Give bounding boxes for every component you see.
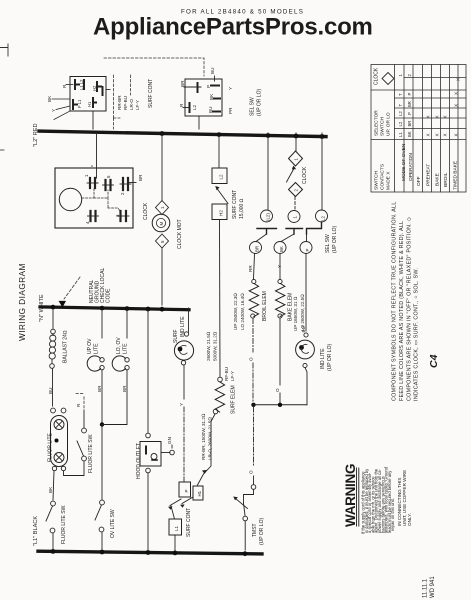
table cell lines horizontal bbox=[395, 98, 467, 129]
tube center dot bbox=[55, 439, 59, 443]
svg-text:L2: L2 bbox=[398, 121, 403, 126]
wire P plug down bbox=[305, 254, 307, 332]
svg-text:L2: L2 bbox=[192, 104, 197, 110]
wire H1 to L2 bus bbox=[92, 111, 94, 129]
oven ind lite lamp bbox=[296, 340, 315, 359]
svg-text:BU: BU bbox=[208, 107, 213, 113]
ballast terminal top bbox=[51, 329, 56, 334]
box terminal L2 bbox=[212, 168, 227, 184]
svg-text:SURF CONT: SURF CONT bbox=[148, 79, 154, 108]
terminal circle top bbox=[184, 332, 188, 336]
double arrows bbox=[170, 499, 181, 506]
dash wire broil to sub-bus bbox=[252, 319, 254, 403]
svg-text:X: X bbox=[454, 104, 459, 107]
svg-text:X: X bbox=[435, 115, 440, 118]
plug circle 1 bbox=[288, 211, 300, 223]
svg-text:BR: BR bbox=[122, 385, 127, 392]
dashed harness top run bbox=[104, 58, 204, 76]
lamp top terminal bbox=[304, 333, 308, 337]
svg-text:LITE: LITE bbox=[94, 343, 100, 354]
fluor sw2 arm bbox=[77, 441, 84, 456]
lower surf cont box H1 bbox=[193, 486, 203, 500]
surface unit switch box (left) bbox=[70, 77, 106, 112]
svg-text:UP 2500W, 22.3Ω: UP 2500W, 22.3Ω bbox=[233, 293, 238, 330]
ov lite sw arm bbox=[95, 505, 102, 520]
table selector band divider bbox=[371, 139, 466, 141]
terminal L1 top bbox=[75, 80, 79, 89]
svg-text:WIRING DIAGRAM: WIRING DIAGRAM bbox=[18, 263, 27, 341]
svg-text:X: X bbox=[443, 115, 448, 118]
outlet terminal bottom bbox=[146, 468, 151, 473]
svg-text:X: X bbox=[426, 133, 431, 136]
svg-text:SURF ELEM: SURF ELEM bbox=[231, 385, 237, 414]
coil BROIL ELEM bbox=[249, 284, 258, 317]
svg-text:O: O bbox=[249, 470, 254, 474]
clock terminal 1 bbox=[90, 178, 95, 188]
svg-text:FEED LINE COLORS ARE AS NOTED: FEED LINE COLORS ARE AS NOTED (BLACK, WH… bbox=[399, 221, 405, 401]
svg-text:X: X bbox=[426, 115, 431, 118]
svg-text:IND LITE: IND LITE bbox=[320, 348, 326, 369]
dashed harness box bbox=[114, 75, 131, 118]
bus N WHITE bbox=[40, 307, 189, 310]
svg-text:MADE X: MADE X bbox=[386, 171, 392, 190]
svg-text:2600W, 21.5Ω: 2600W, 21.5Ω bbox=[206, 331, 211, 361]
tube terminal bottom-right bbox=[61, 466, 65, 470]
wire bar to BK plug bbox=[281, 234, 294, 242]
fluorescent tube capsule bbox=[51, 416, 68, 467]
ground arrow head on N bus bbox=[59, 301, 67, 308]
svg-text:TIMED BAKE: TIMED BAKE bbox=[453, 161, 459, 190]
terminal F bottom bbox=[73, 100, 77, 109]
junction on L2 at surf cont bbox=[217, 132, 222, 137]
clock diamond 2 bbox=[289, 183, 303, 197]
junction on L2 at clock motor bbox=[160, 131, 165, 136]
dash wire to lower surf cont P bbox=[183, 407, 185, 482]
svg-text:BK: BK bbox=[209, 93, 214, 100]
terminal P top-right bbox=[211, 85, 219, 87]
clock face circle bbox=[59, 188, 81, 210]
plug circle P bbox=[300, 242, 312, 254]
svg-text:LO 2400W, 16.4Ω: LO 2400W, 16.4Ω bbox=[240, 293, 245, 330]
svg-text:SURF CONT: SURF CONT bbox=[232, 190, 238, 219]
wire elem elbow to lower surf cont bbox=[198, 414, 216, 485]
wire L2 to surf cont bbox=[218, 133, 220, 168]
svg-text:COMPONENTS ARE SHOWN IN "OFF": COMPONENTS ARE SHOWN IN "OFF" OR "RELAXE… bbox=[407, 217, 413, 401]
wire lamp to junction bbox=[102, 370, 127, 425]
surf ind lite lamp bbox=[174, 341, 193, 360]
svg-text:BR: BR bbox=[255, 246, 260, 252]
wire sw2 up with dashes bbox=[83, 410, 85, 428]
svg-text:P: P bbox=[305, 249, 310, 252]
svg-text:repair on this unit.: repair on this unit. bbox=[390, 498, 395, 531]
table clock band divider bbox=[371, 89, 466, 91]
svg-text:SWITCH: SWITCH bbox=[380, 117, 386, 136]
terminal stub right edge bbox=[102, 87, 104, 95]
ballast coil bbox=[50, 335, 56, 341]
registration tick left edge mid bbox=[0, 149, 4, 151]
clock internal dashed links bbox=[82, 188, 120, 211]
wire surf cont down bbox=[219, 220, 222, 378]
svg-text:H1: H1 bbox=[197, 490, 202, 496]
svg-text:RF-BU: RF-BU bbox=[224, 367, 229, 381]
svg-text:H2: H2 bbox=[92, 85, 97, 91]
svg-text:AppliancePartsPros.com: AppliancePartsPros.com bbox=[93, 14, 373, 41]
svg-text:LITE: LITE bbox=[123, 343, 129, 354]
terminal BU bottom-mid bbox=[213, 111, 220, 113]
svg-text:SEL SW: SEL SW bbox=[325, 234, 331, 253]
svg-text:"N" WHITE: "N" WHITE bbox=[39, 294, 45, 322]
svg-text:CLOCK: CLOCK bbox=[302, 166, 308, 184]
plug circle sel sw L2 bbox=[316, 210, 328, 222]
svg-text:SURF: SURF bbox=[173, 329, 179, 343]
clock terminal 3 bbox=[121, 211, 127, 221]
terminal circle above rf elem bbox=[218, 377, 223, 382]
wire N to lo ov lite bbox=[126, 309, 128, 338]
bus L1 BLACK bbox=[38, 551, 262, 554]
fluor lite sw top contact bbox=[51, 501, 56, 506]
svg-text:RR-BR, 1500W, 31.2Ω: RR-BR, 1500W, 31.2Ω bbox=[201, 413, 206, 460]
svg-text:X: X bbox=[454, 92, 459, 95]
table row titles bbox=[401, 143, 459, 190]
wire BK plug to bake elem bbox=[279, 254, 281, 280]
svg-text:H1: H1 bbox=[87, 101, 92, 107]
outlet slot bbox=[145, 447, 147, 454]
svg-text:SEL SW: SEL SW bbox=[250, 97, 256, 116]
wire bake to sub-bus bbox=[279, 319, 281, 404]
svg-text:X: X bbox=[456, 78, 461, 81]
tick at box top bbox=[214, 76, 216, 81]
svg-text:M: M bbox=[159, 222, 164, 226]
terminal L2 top bbox=[83, 80, 85, 89]
harness wire color legend bbox=[117, 95, 140, 110]
svg-text:CONTACTS: CONTACTS bbox=[380, 164, 386, 190]
wire ballast down bbox=[52, 369, 54, 407]
lead R into box bbox=[66, 84, 73, 86]
svg-text:BR: BR bbox=[97, 385, 102, 392]
terminal H2 top bbox=[97, 82, 101, 91]
svg-text:"L1" BLACK: "L1" BLACK bbox=[33, 516, 39, 546]
wire L2 to plug L2 (x=268) bbox=[267, 133, 269, 210]
ov lite sw bottom contact bbox=[99, 527, 104, 532]
svg-text:ONLY.: ONLY. bbox=[407, 513, 412, 526]
switch arm with arrow bbox=[217, 189, 228, 204]
WARNING underline bbox=[357, 468, 359, 526]
svg-text:L2: L2 bbox=[219, 174, 224, 180]
svg-text:BU: BU bbox=[210, 68, 215, 74]
svg-text:RR: RR bbox=[248, 265, 253, 272]
dashed drop to bus bbox=[114, 118, 121, 129]
receptacle bar 3 elbow bbox=[307, 222, 322, 234]
svg-text:T: T bbox=[398, 104, 403, 107]
tmst arm with arrow bbox=[236, 499, 248, 509]
svg-text:BR: BR bbox=[180, 80, 185, 87]
table clock split bbox=[404, 77, 466, 79]
dash wire sub bus to tmst bbox=[253, 407, 255, 466]
lo ov lite lamp bbox=[112, 356, 125, 371]
svg-text:X: X bbox=[443, 133, 448, 136]
svg-text:CLOCK MOT: CLOCK MOT bbox=[177, 219, 183, 249]
wire lamp to sub bus bbox=[305, 368, 307, 405]
junction on L2 at clock switch bbox=[294, 134, 299, 139]
wire L2 to clock sw (x=296) bbox=[295, 133, 297, 151]
up ov lite lamp bbox=[87, 356, 100, 371]
svg-text:PR: PR bbox=[228, 107, 233, 114]
svg-text:SURF CONT: SURF CONT bbox=[186, 508, 192, 537]
svg-text:LR-O: LR-O bbox=[129, 99, 134, 110]
svg-text:P: P bbox=[206, 85, 211, 88]
junction on N at clock motor bbox=[160, 307, 165, 312]
terminal H1 bottom bbox=[93, 98, 96, 107]
outlet terminal top bbox=[146, 433, 151, 438]
terminal BR top-left bbox=[197, 83, 199, 92]
svg-text:BALLAST 24Ω: BALLAST 24Ω bbox=[63, 330, 69, 363]
svg-text:BK: BK bbox=[47, 95, 52, 102]
junction on N at up ov lite bbox=[100, 306, 105, 311]
table header column divider bbox=[394, 65, 396, 193]
svg-text:BROIL ELEM: BROIL ELEM bbox=[262, 291, 268, 321]
fluor lite sw bottom contact bbox=[50, 528, 55, 533]
svg-text:L1: L1 bbox=[174, 525, 179, 531]
svg-text:H2: H2 bbox=[219, 210, 224, 216]
junction on L1 at tmst bbox=[243, 551, 248, 556]
coil BAKE ELEM bbox=[276, 284, 285, 317]
tmst upper terminal bbox=[251, 485, 256, 490]
clock terminal 4 bbox=[91, 211, 96, 221]
svg-text:Y: Y bbox=[51, 109, 56, 112]
svg-text:RR-BR: RR-BR bbox=[117, 95, 122, 110]
ground note pointer dash bbox=[64, 277, 80, 299]
junction on N at hood outlet bbox=[146, 307, 151, 312]
clock box bbox=[55, 168, 133, 228]
arrowhead on elbow bbox=[202, 470, 207, 474]
junction on L2 at sel sw bbox=[320, 134, 325, 139]
svg-text:WARNING: WARNING bbox=[343, 464, 358, 527]
box terminal L1 bbox=[169, 519, 182, 535]
svg-text:(UP OR LO): (UP OR LO) bbox=[327, 344, 333, 371]
svg-text:X: X bbox=[435, 133, 440, 136]
svg-text:IND LITE: IND LITE bbox=[180, 316, 186, 337]
svg-text:BROIL: BROIL bbox=[443, 172, 449, 187]
svg-text:P: P bbox=[184, 489, 189, 492]
lead BK bbox=[52, 98, 70, 100]
bus L2 RED bbox=[39, 131, 326, 137]
switch arm to L1 box bbox=[171, 506, 175, 519]
junction on N at ballast bbox=[51, 305, 56, 310]
coil RF SURF ELEM bbox=[215, 382, 224, 412]
svg-text:MODE OF OVEN: MODE OF OVEN bbox=[401, 143, 407, 181]
svg-text:UP OV: UP OV bbox=[87, 338, 93, 354]
svg-text:(L2): (L2) bbox=[266, 213, 271, 221]
registration tick left edge top bbox=[0, 44, 8, 56]
svg-text:Y: Y bbox=[277, 265, 282, 268]
table X marks bbox=[426, 78, 461, 137]
fluor lite sw arm bbox=[46, 506, 53, 521]
clock terminal 5 bbox=[106, 180, 111, 190]
junction on L1 at hood outlet bbox=[146, 550, 151, 555]
N bus end drop bbox=[188, 308, 190, 332]
svg-text:BK: BK bbox=[279, 246, 284, 252]
svg-text:L2: L2 bbox=[321, 216, 326, 221]
warning copper note bbox=[397, 470, 412, 526]
table outer border bbox=[371, 65, 466, 193]
lead from 2 out right side bbox=[128, 182, 136, 184]
sub bus node bake bbox=[278, 403, 282, 407]
tube terminal top-right bbox=[61, 408, 66, 413]
gn lead bbox=[161, 452, 170, 454]
svg-text:P: P bbox=[407, 93, 412, 96]
svg-text:O: O bbox=[275, 388, 280, 392]
box terminal H2 bbox=[212, 204, 227, 220]
svg-text:FLUOR LITE SW.: FLUOR LITE SW. bbox=[88, 434, 94, 473]
dash wire to plug 1 bbox=[294, 197, 296, 210]
svg-text:Y: Y bbox=[228, 87, 233, 90]
svg-text:BU: BU bbox=[301, 326, 306, 332]
tmst lower diagonal bbox=[244, 503, 246, 516]
wire N to hood outlet bbox=[147, 309, 149, 433]
terminal circle bbox=[251, 314, 255, 318]
svg-text:CODE: CODE bbox=[106, 288, 112, 303]
receptacle bar 2 bbox=[286, 229, 303, 235]
svg-text:RF-BU: RF-BU bbox=[123, 96, 128, 110]
svg-text:L1 L2: L1 L2 bbox=[79, 79, 84, 90]
tube terminal bottom-left bbox=[52, 466, 56, 470]
table row lines vertical bbox=[404, 65, 458, 193]
wire outlet to L1 bbox=[147, 473, 149, 550]
ballast terminal bottom bbox=[50, 364, 55, 369]
svg-text:LF-Y: LF-Y bbox=[230, 371, 235, 381]
terminal circle below rf elem bbox=[213, 409, 218, 414]
svg-text:INDICATES CLOCK, ▭ SURF. CONT.: INDICATES CLOCK, ▭ SURF. CONT., ○ SOL. S… bbox=[414, 268, 420, 401]
svg-text:OV LITE SW: OV LITE SW bbox=[110, 509, 116, 538]
clock motor circle bbox=[152, 214, 170, 232]
wire clock motor to N bbox=[161, 248, 163, 305]
junction on L1 at surf cont bbox=[173, 551, 178, 556]
diamond terminal 1 bbox=[156, 201, 169, 215]
svg-text:CLOCK: CLOCK bbox=[374, 67, 380, 85]
fluor sw2 bottom contact bbox=[82, 456, 87, 461]
outlet hole bbox=[151, 454, 157, 460]
wire box to L2 bus bbox=[198, 116, 200, 129]
svg-text:5000W, 31.2Ω: 5000W, 31.2Ω bbox=[213, 331, 218, 361]
second tube circuit wire bbox=[64, 461, 85, 476]
hood outlet box bbox=[140, 442, 161, 467]
svg-text:BK: BK bbox=[48, 486, 53, 493]
clock diamond symbol bbox=[382, 73, 394, 85]
tube terminal top-left bbox=[51, 408, 56, 413]
tmst lower terminal bbox=[243, 516, 248, 521]
wire junction to switch bbox=[101, 425, 103, 501]
svg-text:Y: Y bbox=[179, 403, 184, 406]
svg-text:TMST: TMST bbox=[252, 523, 258, 537]
terminal circle bbox=[252, 279, 256, 283]
wire tube to switch bbox=[53, 471, 54, 500]
terminal L2 bottom-left bbox=[189, 103, 191, 112]
wire tmst to L1 bbox=[244, 521, 246, 550]
wire switch to L1 bbox=[101, 532, 103, 550]
svg-text:BR: BR bbox=[138, 174, 143, 181]
svg-text:OPERATION: OPERATION bbox=[408, 153, 414, 181]
svg-text:X: X bbox=[454, 133, 459, 136]
svg-text:OFF: OFF bbox=[416, 176, 422, 186]
svg-text:"L2" RED: "L2" RED bbox=[33, 123, 39, 147]
svg-text:BK: BK bbox=[407, 131, 412, 137]
svg-text:11.11.1: 11.11.1 bbox=[423, 578, 429, 598]
svg-text:UP 1650W, 31 Ω: UP 1650W, 31 Ω bbox=[293, 296, 298, 331]
svg-text:15,000 Ω: 15,000 Ω bbox=[239, 198, 245, 219]
clock switch arm bbox=[287, 168, 295, 183]
svg-text:FLUOR LITE SW.: FLUOR LITE SW. bbox=[61, 505, 67, 544]
junction on L1 at ov lite sw bbox=[100, 550, 105, 555]
svg-text:LO 2600W, 22.5Ω: LO 2600W, 22.5Ω bbox=[300, 294, 305, 331]
svg-text:LF-Y: LF-Y bbox=[135, 100, 140, 110]
ov lite sw top contact bbox=[100, 500, 105, 505]
svg-text:L2: L2 bbox=[398, 111, 403, 116]
tmst body bbox=[244, 490, 254, 504]
svg-text:O: O bbox=[249, 357, 254, 361]
svg-text:*: * bbox=[91, 165, 97, 167]
junction ov lites bbox=[100, 422, 104, 426]
svg-text:WD 941: WD 941 bbox=[430, 576, 436, 598]
wire down bbox=[183, 365, 185, 399]
svg-text:FLUOR LITE: FLUOR LITE bbox=[48, 432, 54, 462]
table terminal row labels bbox=[398, 74, 412, 138]
svg-text:SWITCH: SWITCH bbox=[374, 171, 380, 190]
plug circle BK bbox=[274, 242, 286, 254]
svg-text:T: T bbox=[398, 93, 403, 96]
svg-text:SELECTOR: SELECTOR bbox=[374, 110, 380, 136]
tube cathode bottom bbox=[54, 453, 64, 463]
clock terminal 2 bbox=[123, 178, 128, 190]
lamp bottom terminal bbox=[303, 363, 307, 367]
svg-text:(UP OR LO): (UP OR LO) bbox=[257, 89, 263, 116]
wire bar to P plug bbox=[306, 234, 308, 242]
wire L2 to sel sw plug (x=322) bbox=[321, 133, 323, 210]
svg-text:PREHEAT: PREHEAT bbox=[426, 164, 432, 186]
svg-text:CLOCK: CLOCK bbox=[143, 202, 149, 220]
svg-text:BAKE: BAKE bbox=[435, 173, 441, 186]
junction on L1 at fluor sw bbox=[51, 549, 56, 554]
wire switch to L1 bbox=[52, 533, 54, 550]
svg-text:P: P bbox=[407, 112, 412, 115]
terminal circle bottom bbox=[181, 361, 185, 365]
svg-text:UP. OR LO: UP. OR LO bbox=[386, 112, 392, 136]
svg-text:BU: BU bbox=[48, 388, 53, 394]
svg-text:LO, OV: LO, OV bbox=[116, 337, 122, 354]
svg-text:(UP OR LO): (UP OR LO) bbox=[332, 226, 338, 253]
wire L1 box to bus bbox=[174, 535, 176, 550]
wire bus to clock contact 1 bbox=[96, 133, 98, 178]
plug circle BR bbox=[250, 242, 262, 254]
svg-text:C4: C4 bbox=[428, 354, 440, 368]
lead Y diagonal bbox=[54, 106, 70, 120]
svg-text:L1: L1 bbox=[398, 132, 403, 137]
svg-text:LR-O, 2600W, 21.5Ω: LR-O, 2600W, 21.5Ω bbox=[208, 417, 213, 460]
fluor sw2 top contact bbox=[82, 428, 87, 433]
sub bus line bbox=[254, 404, 308, 406]
tube cathode top bbox=[54, 420, 64, 430]
receptacle bar 1 bbox=[257, 229, 277, 235]
terminal circle bbox=[278, 279, 282, 283]
svg-text:GN: GN bbox=[167, 437, 172, 444]
svg-text:HOOD OUTLET: HOOD OUTLET bbox=[136, 443, 142, 479]
wire BR plug to broil elem bbox=[254, 254, 255, 280]
wire lamp down bbox=[101, 370, 103, 423]
warning paragraph bbox=[361, 466, 396, 534]
terminal circle bbox=[278, 314, 282, 318]
svg-text:BR: BR bbox=[407, 101, 412, 107]
wire bar to BR plug bbox=[256, 234, 267, 242]
svg-text:COMPONENT SYMBOLS DO NOT REFLE: COMPONENT SYMBOLS DO NOT REFLECT TRUE CO… bbox=[392, 201, 398, 401]
